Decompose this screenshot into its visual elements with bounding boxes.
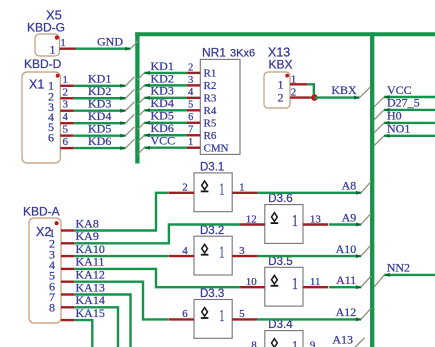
buffer D3.5 output stub bbox=[303, 286, 328, 288]
wire VCC to NR1 bbox=[144, 146, 187, 150]
svg-text:1: 1 bbox=[292, 211, 298, 230]
bus entry KD1 left bbox=[126, 77, 135, 86]
NR1 pin number 5 bbox=[188, 100, 193, 111]
bus entry GND bbox=[131, 41, 139, 49]
NR1 pin name R6 bbox=[204, 130, 217, 142]
bus entry VCC right bbox=[138, 148, 145, 155]
net label KA14 bbox=[76, 293, 105, 307]
X2 pin 7 stub bbox=[61, 306, 74, 308]
buffer D3.2 body bbox=[194, 236, 232, 275]
X2 pin 4 number inside bbox=[49, 258, 55, 272]
buffer D3.4 open-collector diamond symbol bbox=[271, 339, 279, 347]
svg-text:1: 1 bbox=[292, 337, 298, 347]
X2 pin 7 number inside bbox=[49, 290, 55, 304]
svg-text:6: 6 bbox=[188, 112, 193, 123]
net label A12 bbox=[336, 305, 357, 319]
wire A10 bbox=[258, 254, 362, 258]
buffer D3.2 output stub bbox=[232, 255, 257, 257]
buffer D3.4 label bbox=[268, 319, 293, 331]
X1 pin 5 number outside bbox=[63, 124, 69, 136]
bus entry KD2 left bbox=[126, 89, 135, 98]
buffer D3.6 label bbox=[268, 193, 292, 205]
svg-text:KBD-G: KBD-G bbox=[27, 21, 65, 35]
svg-text:A12: A12 bbox=[336, 305, 357, 319]
bus entry NO1 bbox=[374, 136, 384, 146]
svg-text:2: 2 bbox=[63, 86, 69, 98]
net label NN2 bbox=[387, 261, 410, 275]
svg-text:8: 8 bbox=[49, 301, 55, 315]
net label A10 bbox=[336, 242, 357, 256]
wire A11 bbox=[329, 285, 361, 289]
bus: top horizontal net bus bbox=[135, 32, 435, 36]
wire KD6 from X1 bbox=[74, 146, 126, 150]
X5 pin 1 stub bbox=[60, 48, 76, 50]
svg-text:KBD-D: KBD-D bbox=[24, 57, 62, 71]
svg-text:1: 1 bbox=[278, 77, 284, 91]
buffer D3.5 input pin 10 number bbox=[246, 276, 258, 288]
NR1 pin 4 stub bbox=[187, 97, 200, 99]
buffer D3.1 label bbox=[200, 162, 224, 174]
buffer D3.2 open-collector diamond symbol bbox=[201, 244, 209, 254]
X2 pin 2 number inside bbox=[49, 237, 55, 251]
wire KD5 from X1 bbox=[74, 134, 126, 138]
wire KA9 to D3.6 input bbox=[74, 225, 240, 244]
wire KA14 down bbox=[74, 307, 118, 347]
svg-text:1: 1 bbox=[63, 74, 69, 86]
bus entry A11 bbox=[361, 276, 371, 287]
buffer D3.2 input pin 4 number bbox=[182, 245, 188, 257]
X1 pin 6 number outside bbox=[63, 136, 69, 148]
X1 pin 5 number inside bbox=[48, 120, 54, 134]
net label KD4 left bbox=[88, 109, 111, 123]
bus entry A12 bbox=[361, 308, 371, 319]
buffer D3.6 function label 1 bbox=[292, 211, 298, 230]
bus entry A8 bbox=[361, 182, 371, 193]
net label KD6 at NR1 bbox=[151, 121, 174, 135]
net label KA13 bbox=[76, 280, 105, 294]
net label KD2 at NR1 bbox=[151, 71, 174, 85]
NR1 pin name R5 bbox=[204, 117, 217, 129]
buffer D3.4 function label 1 bbox=[292, 337, 298, 347]
net label KD5 left bbox=[88, 122, 111, 136]
net label GND bbox=[97, 35, 123, 49]
X2 pin 5 number inside bbox=[49, 269, 55, 283]
X1 pin 6 stub bbox=[60, 147, 74, 149]
bus: left vertical KD bus bbox=[135, 32, 139, 163]
X1 pin 4 number inside bbox=[48, 110, 54, 124]
svg-text:1: 1 bbox=[219, 179, 224, 198]
X1 pin 6 number inside bbox=[48, 131, 54, 145]
buffer D3.4 output pin 9 number bbox=[310, 339, 316, 347]
label KBD-A bbox=[23, 204, 60, 218]
svg-text:4: 4 bbox=[63, 111, 69, 123]
buffer D3.4 body bbox=[265, 331, 303, 347]
wire A12 bbox=[258, 317, 362, 321]
wire KD1 from X1 bbox=[74, 84, 126, 88]
resistor network NR1 body bbox=[200, 59, 240, 154]
net label KD5 at NR1 bbox=[151, 109, 174, 123]
buffer D3.1 input stub bbox=[169, 192, 195, 194]
buffer D3.3 body bbox=[194, 300, 232, 339]
label X5 bbox=[46, 8, 62, 23]
connector X1 KBD-D body bbox=[22, 72, 60, 163]
net label A9 bbox=[342, 210, 357, 224]
X1 pin 3 stub bbox=[60, 110, 74, 112]
buffer D3.2 function label 1 bbox=[219, 243, 224, 262]
net label H0 bbox=[387, 109, 402, 123]
svg-text:GND: GND bbox=[97, 35, 123, 49]
wire KA11 to D3.5 input bbox=[74, 269, 240, 287]
svg-text:1: 1 bbox=[292, 274, 298, 293]
svg-text:X1: X1 bbox=[29, 78, 44, 92]
label X2 bbox=[36, 225, 51, 239]
svg-text:NR1: NR1 bbox=[202, 45, 226, 59]
X2 pin 6 stub bbox=[61, 293, 74, 295]
net label KD3 at NR1 bbox=[151, 84, 174, 98]
wire KD4 from X1 bbox=[74, 121, 126, 125]
wire D27_5 bbox=[384, 108, 435, 112]
svg-text:D3.3: D3.3 bbox=[200, 288, 224, 300]
net label KBX bbox=[331, 83, 357, 97]
buffer D3.2 input stub bbox=[169, 255, 195, 257]
wire KA13 down to D3.4 bbox=[74, 295, 130, 347]
buffer D3.1 open-collector diamond symbol bbox=[201, 181, 209, 191]
X2 pin 5 stub bbox=[61, 281, 74, 283]
wire GND bbox=[76, 47, 131, 51]
bus entry D27_5 bbox=[374, 110, 384, 120]
wire KA12 to D3.3 input bbox=[74, 282, 168, 320]
buffer D3.3 open-collector diamond symbol bbox=[201, 308, 209, 318]
svg-text:KBD-A: KBD-A bbox=[23, 204, 60, 218]
X13 pin 2 number inside bbox=[278, 91, 284, 105]
svg-text:5: 5 bbox=[188, 100, 193, 111]
label X1 bbox=[29, 78, 44, 92]
bus entry A9 bbox=[361, 214, 371, 225]
svg-text:D3.4: D3.4 bbox=[268, 319, 293, 331]
NR1 pin name R1 bbox=[204, 68, 217, 80]
wire X13 pin2 bbox=[310, 96, 314, 98]
svg-text:R3: R3 bbox=[204, 93, 217, 105]
buffer D3.1 function label 1 bbox=[219, 179, 224, 198]
svg-text:D3.6: D3.6 bbox=[268, 193, 292, 205]
wire KD1 to NR1 bbox=[144, 71, 187, 75]
X2 pin 8 stub bbox=[61, 319, 74, 321]
NR1 pin 7 stub bbox=[187, 134, 200, 136]
X13 pin 1 stub bbox=[290, 83, 307, 85]
NR1 pin name R4 bbox=[204, 105, 217, 117]
buffer D3.1 body bbox=[194, 173, 232, 212]
NR1 pin number 1 bbox=[188, 137, 193, 148]
X1 pin 1 stub bbox=[60, 85, 74, 87]
X1 pin 3 number inside bbox=[48, 100, 54, 114]
bus entry KD4 right bbox=[138, 110, 145, 117]
net label KD2 left bbox=[88, 84, 111, 98]
X13 pin 2 stub bbox=[290, 96, 310, 98]
svg-text:R5: R5 bbox=[204, 117, 217, 129]
svg-text:7: 7 bbox=[188, 125, 193, 136]
X5 pin 1 number outside bbox=[60, 37, 66, 49]
label KBX bbox=[269, 57, 293, 71]
wire X13 pin1 elbow bbox=[307, 84, 314, 97]
wire A8 bbox=[258, 191, 362, 195]
net label KD1 left bbox=[88, 72, 111, 86]
net label D27_5 bbox=[387, 96, 420, 110]
X2 pin 8 number inside bbox=[49, 301, 55, 315]
net label A11 bbox=[336, 273, 356, 287]
net label A8 bbox=[342, 179, 357, 193]
label KBD-D bbox=[24, 57, 62, 71]
svg-text:4: 4 bbox=[188, 87, 193, 98]
buffer D3.6 output pin 13 number bbox=[310, 213, 322, 225]
buffer D3.1 input pin 2 number bbox=[182, 182, 188, 194]
X2 pin 2 stub bbox=[61, 242, 74, 244]
svg-text:KD6: KD6 bbox=[88, 134, 111, 148]
wire KD6 to NR1 bbox=[144, 133, 187, 137]
buffer D3.6 body bbox=[265, 205, 303, 244]
buffer D3.3 output stub bbox=[232, 318, 257, 320]
svg-text:6: 6 bbox=[48, 131, 54, 145]
X1 pin 1 number outside bbox=[63, 74, 69, 86]
X2 pin 1 number inside bbox=[49, 226, 55, 240]
net label KA12 bbox=[76, 268, 105, 282]
X13 pin 1 number inside bbox=[278, 77, 284, 91]
X2 pin 3 number inside bbox=[49, 247, 55, 261]
wire KD3 from X1 bbox=[74, 109, 126, 113]
X13 pin 1 number outside bbox=[291, 73, 297, 85]
buffer D3.6 open-collector diamond symbol bbox=[271, 213, 279, 223]
bus entry NN2 bbox=[374, 275, 384, 287]
buffer D3.6 output stub bbox=[303, 223, 328, 225]
X1 pin 1 number inside bbox=[48, 79, 54, 93]
svg-text:NO1: NO1 bbox=[387, 122, 410, 136]
svg-text:1: 1 bbox=[219, 243, 224, 262]
bus entry KBX bbox=[360, 87, 371, 98]
NR1 pin number 3 bbox=[188, 75, 193, 86]
bus entry KD4 left bbox=[126, 114, 135, 123]
svg-text:3Kx6: 3Kx6 bbox=[230, 47, 255, 59]
svg-text:A8: A8 bbox=[342, 179, 357, 193]
svg-text:D3.2: D3.2 bbox=[200, 225, 224, 237]
svg-text:A9: A9 bbox=[342, 210, 357, 224]
NR1 pin number 2 bbox=[188, 62, 193, 73]
junction on KBX net bbox=[311, 94, 318, 101]
bus entry KD5 left bbox=[126, 127, 135, 136]
wire KD2 from X1 bbox=[74, 96, 126, 100]
NR1 pin name R2 bbox=[204, 80, 217, 92]
net label VCC at NR1 bbox=[151, 134, 176, 148]
net label KA9 bbox=[76, 229, 99, 243]
X1 pin 2 stub bbox=[60, 97, 74, 99]
buffer D3.3 function label 1 bbox=[219, 306, 224, 325]
bus entry KD2 right bbox=[138, 85, 145, 92]
svg-text:A10: A10 bbox=[336, 242, 357, 256]
buffer D3.6 input pin 12 number bbox=[246, 213, 257, 225]
bus entry KD6 left bbox=[126, 139, 135, 148]
buffer D3.2 output pin 3 number bbox=[239, 245, 245, 257]
bus entry KD1 right bbox=[138, 73, 145, 80]
svg-text:1: 1 bbox=[188, 137, 193, 148]
svg-text:8: 8 bbox=[251, 339, 257, 347]
svg-text:2: 2 bbox=[278, 91, 284, 105]
svg-text:A13: A13 bbox=[332, 333, 353, 347]
wire KA8 to D3.1 input bbox=[74, 193, 168, 231]
wire NO1 bbox=[384, 134, 435, 138]
net label KA10 bbox=[76, 242, 105, 256]
buffer D3.3 output pin 5 number bbox=[239, 308, 245, 320]
X2 pin 4 stub bbox=[61, 268, 74, 270]
svg-text:VCC: VCC bbox=[151, 134, 176, 148]
wire KBX bbox=[314, 96, 359, 100]
svg-text:H0: H0 bbox=[387, 109, 402, 123]
resistor network NR1 value 3Kx6 title bbox=[202, 45, 255, 59]
wire KD2 to NR1 bbox=[144, 83, 187, 87]
X1 pin 5 stub bbox=[60, 134, 74, 136]
net label KD4 at NR1 bbox=[151, 96, 174, 110]
svg-text:1: 1 bbox=[60, 37, 66, 49]
X13 pin 2 number outside bbox=[291, 87, 297, 99]
svg-text:D3.5: D3.5 bbox=[268, 256, 292, 268]
svg-text:KBX: KBX bbox=[331, 83, 357, 97]
connector X5 KBD-G body bbox=[35, 34, 60, 56]
NR1 pin 6 stub bbox=[187, 122, 200, 124]
svg-text:R6: R6 bbox=[204, 130, 217, 142]
svg-text:KBX: KBX bbox=[269, 57, 293, 71]
bus: right vertical bus bbox=[370, 32, 374, 347]
buffer D3.3 input pin 6 number bbox=[182, 308, 188, 320]
NR1 pin name R3 bbox=[204, 93, 217, 105]
bus entry H0 bbox=[374, 123, 384, 133]
wire KD3 to NR1 bbox=[144, 96, 187, 100]
bus entry KD3 left bbox=[126, 102, 135, 111]
buffer D3.5 open-collector diamond symbol bbox=[271, 275, 279, 285]
NR1 pin 5 stub bbox=[187, 109, 200, 111]
svg-text:3: 3 bbox=[188, 75, 193, 86]
net label KA15 bbox=[76, 306, 105, 320]
NR1 pin number 7 bbox=[188, 125, 193, 136]
svg-text:1: 1 bbox=[219, 306, 224, 325]
buffer D3.5 input stub bbox=[239, 286, 264, 288]
bus entry KD3 right bbox=[138, 98, 145, 105]
buffer D3.4 input pin 8 number bbox=[251, 339, 257, 347]
buffer D3.2 label bbox=[200, 225, 224, 237]
X2 pin 6 number inside bbox=[49, 279, 55, 293]
net label KA11 bbox=[76, 255, 105, 269]
X2 pin 1 stub bbox=[61, 229, 74, 231]
buffer D3.5 output pin 11 number bbox=[310, 276, 321, 288]
NR1 pin 1 stub bbox=[187, 147, 200, 149]
wire KA15 down bbox=[74, 320, 92, 347]
buffer D3.1 output pin 1 number bbox=[239, 182, 245, 194]
buffer D3.3 input stub bbox=[169, 318, 195, 320]
X1 pin 4 stub bbox=[60, 122, 74, 124]
buffer D3.6 input stub bbox=[239, 223, 264, 225]
svg-text:6: 6 bbox=[63, 136, 69, 148]
svg-text:D27_5: D27_5 bbox=[387, 96, 420, 110]
NR1 pin name CMN bbox=[204, 142, 229, 154]
svg-text:NN2: NN2 bbox=[387, 261, 410, 275]
wire A9 bbox=[329, 223, 361, 227]
svg-text:R4: R4 bbox=[204, 105, 217, 117]
X1 pin 4 number outside bbox=[63, 111, 69, 123]
buffer D3.1 output stub bbox=[232, 192, 257, 194]
wire NN2 bbox=[384, 273, 435, 277]
wire KD4 to NR1 bbox=[144, 108, 187, 112]
connector X2 KBD-A body bbox=[29, 218, 61, 323]
NR1 pin number 4 bbox=[188, 87, 193, 98]
svg-text:CMN: CMN bbox=[204, 142, 229, 154]
net label A13 bbox=[332, 333, 353, 347]
X5 pin 1 number inside bbox=[50, 43, 56, 57]
net label KD3 left bbox=[88, 97, 111, 111]
connector X13 KBX body bbox=[264, 72, 290, 108]
net label KA8 bbox=[76, 216, 99, 230]
bus entry A13 bbox=[353, 338, 365, 347]
net label VCC bbox=[387, 83, 412, 97]
svg-text:9: 9 bbox=[310, 339, 316, 347]
NR1 pin number 6 bbox=[188, 112, 193, 123]
NR1 pin 3 stub bbox=[187, 84, 200, 86]
svg-text:A11: A11 bbox=[336, 273, 356, 287]
NR1 pin 2 stub bbox=[187, 72, 200, 74]
net label KD1 at NR1 bbox=[151, 59, 174, 73]
X1 pin 2 number outside bbox=[63, 86, 69, 98]
label KBD-G bbox=[27, 21, 65, 35]
X1 pin 3 number outside bbox=[63, 99, 69, 111]
bus entry A10 bbox=[361, 245, 371, 256]
wire VCC bbox=[384, 95, 435, 99]
buffer D3.5 function label 1 bbox=[292, 274, 298, 293]
buffer D3.3 label bbox=[200, 288, 224, 300]
X1 pin 2 number inside bbox=[48, 90, 54, 104]
svg-text:R2: R2 bbox=[204, 80, 217, 92]
net label KD6 left bbox=[88, 134, 111, 148]
net label NO1 bbox=[387, 122, 410, 136]
svg-text:D3.1: D3.1 bbox=[200, 162, 224, 174]
X2 pin 3 stub bbox=[61, 255, 74, 257]
buffer D3.5 label bbox=[268, 256, 292, 268]
svg-text:2: 2 bbox=[188, 62, 193, 73]
buffer D3.5 body bbox=[265, 267, 303, 306]
wire KA10 to D3.2 input bbox=[74, 255, 168, 257]
svg-text:1: 1 bbox=[50, 43, 56, 57]
bus entry KD6 right bbox=[138, 135, 145, 142]
svg-text:5: 5 bbox=[63, 124, 69, 136]
wire H0 bbox=[384, 121, 435, 125]
svg-text:3: 3 bbox=[63, 99, 69, 111]
label X13 bbox=[268, 45, 290, 59]
bus entry VCC bbox=[374, 97, 384, 107]
svg-text:R1: R1 bbox=[204, 68, 217, 80]
wire KD5 to NR1 bbox=[144, 121, 187, 125]
bus entry KD5 right bbox=[138, 123, 145, 130]
svg-text:VCC: VCC bbox=[387, 83, 412, 97]
